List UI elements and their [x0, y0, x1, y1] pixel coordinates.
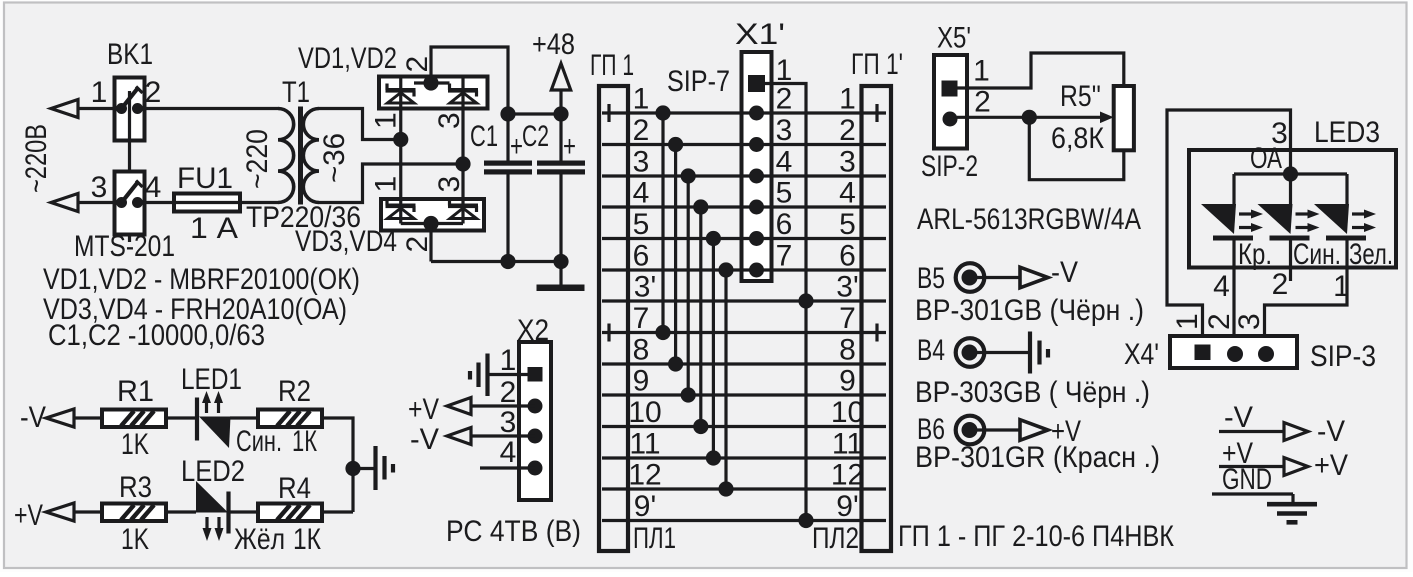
- svg-text:R3: R3: [119, 471, 152, 504]
- node junction row 12: [718, 481, 733, 496]
- svg-text:9': 9': [634, 490, 656, 523]
- connector X2 pin 1 square contact: [528, 367, 543, 382]
- wire R3 to LED2: [166, 510, 196, 513]
- wire link row 5 to row 11: [712, 239, 715, 459]
- LED3 blue chip anode riser: [1289, 174, 1292, 205]
- LED3 red chip cathode bar: [1213, 236, 1253, 241]
- connector X1' pin 7 contact: [749, 263, 764, 278]
- connector X1' pin 6 contact: [749, 231, 764, 246]
- connector X1' body: [742, 52, 772, 281]
- svg-text:1: 1: [370, 112, 403, 129]
- capacitor C1: [506, 114, 509, 161]
- connector X5' pin 1 square contact: [942, 81, 958, 97]
- svg-text:2: 2: [839, 114, 856, 147]
- connector X1' pin 2 contact: [749, 106, 764, 121]
- svg-text:+V: +V: [408, 393, 439, 426]
- diode VD1 symbol: [386, 88, 416, 93]
- svg-text:~220В: ~220В: [20, 124, 53, 193]
- svg-text:ПЛ1: ПЛ1: [633, 522, 676, 555]
- svg-text:8: 8: [633, 334, 650, 367]
- connector X5' pin 2 contact: [943, 112, 958, 127]
- wire +48 rail horizontal: [508, 112, 561, 115]
- resistor R1 hatch: [121, 411, 134, 426]
- svg-text:1 А: 1 А: [190, 212, 238, 245]
- wire X5' pin2 to wiper node: [957, 116, 1029, 119]
- LED3 red chip anode riser: [1232, 174, 1235, 205]
- svg-text:2: 2: [145, 76, 162, 109]
- LED2 diode triangle: [196, 481, 228, 513]
- svg-text:VD1,VD2: VD1,VD2: [298, 42, 397, 75]
- svg-text:-V: -V: [20, 401, 46, 434]
- wire through fuse FU1: [174, 201, 240, 204]
- wire harness row 3': [602, 299, 886, 302]
- svg-text:-V: -V: [1317, 415, 1345, 448]
- wire X2 pin2 to +V arrow: [471, 404, 535, 407]
- LED1 cathode bar: [195, 398, 199, 441]
- svg-text:4: 4: [145, 171, 162, 204]
- node +48 rail C1 junction: [500, 106, 515, 121]
- LED2 cathode bar: [226, 492, 230, 534]
- wire X5' pin1 to R5 top: [957, 53, 1124, 88]
- svg-text:SIP-7: SIP-7: [667, 65, 730, 98]
- svg-text:1К: 1К: [293, 523, 321, 556]
- svg-text:C1: C1: [470, 120, 498, 153]
- svg-text:ПЛ2: ПЛ2: [812, 522, 859, 555]
- svg-text:X5': X5': [937, 22, 971, 55]
- svg-text:4: 4: [633, 177, 650, 210]
- switch BK1 section 1 body: [115, 78, 145, 141]
- svg-text:4: 4: [839, 177, 856, 210]
- wire link row 3 to row 9: [687, 176, 690, 395]
- svg-text:BP-301GR (Красн .): BP-301GR (Красн .): [915, 441, 1160, 474]
- svg-text:~36: ~36: [318, 133, 351, 183]
- capacitor C2: [559, 90, 562, 161]
- wire AC2 vertical VD2 anode to VD4 cathode: [461, 109, 464, 200]
- wire R4 to common node: [322, 510, 353, 513]
- wire harness row 2: [602, 143, 886, 146]
- wire B4 to chassis: [977, 351, 1028, 354]
- svg-text:В5: В5: [917, 262, 945, 295]
- wire harness row 4: [602, 205, 886, 208]
- svg-text:11: 11: [629, 428, 660, 461]
- svg-text:LED2: LED2: [181, 455, 245, 488]
- svg-text:SIP-2: SIP-2: [921, 150, 978, 183]
- wire T1 secondary bottom lead to bridge node B: [319, 164, 463, 203]
- wire harness row 3: [602, 174, 886, 177]
- connector ГП1 body (ПЛ1): [599, 86, 628, 551]
- wire node to chassis symbol: [353, 467, 374, 470]
- +48 output arrow: [551, 64, 570, 91]
- wire AC1 vertical VD1 anode to VD3 cathode: [399, 109, 402, 200]
- svg-text:6: 6: [839, 240, 856, 273]
- svg-text:ARL-5613RGBW/4A: ARL-5613RGBW/4A: [917, 203, 1141, 236]
- LED3 green chip triangle: [1314, 204, 1349, 234]
- jack B6 symbol: [956, 416, 985, 445]
- svg-text:2: 2: [974, 86, 991, 119]
- svg-text:1K: 1K: [121, 428, 149, 461]
- input arrow top (~220V line 1): [51, 100, 78, 118]
- node junction row 8: [668, 356, 683, 371]
- svg-text:BP-303GB ( Чёрн .): BP-303GB ( Чёрн .): [915, 376, 1150, 409]
- svg-text:R4: R4: [278, 472, 311, 505]
- svg-text:11: 11: [832, 428, 863, 461]
- wire X2 pin1 to chassis: [489, 373, 528, 376]
- ground symbol: [1291, 494, 1294, 502]
- node pin1-row3' junction: [798, 293, 813, 308]
- wire B6 to +V arrow: [977, 428, 1020, 431]
- connector X4' pin 1 square contact: [1195, 345, 1211, 361]
- svg-text:R2: R2: [278, 375, 311, 408]
- wire LED3 blue cathode stub: [1289, 240, 1292, 281]
- svg-text:X1': X1': [735, 18, 785, 51]
- svg-text:Син.: Син.: [1293, 238, 1341, 271]
- svg-text:7: 7: [633, 302, 650, 335]
- svg-text:ГП 1: ГП 1: [590, 49, 634, 82]
- fuse FU1 body: [174, 194, 240, 212]
- chassis ground symbol at X2 pin1: [485, 354, 489, 397]
- contact tick row 1 right: [875, 104, 878, 122]
- svg-text:T1: T1: [282, 76, 310, 109]
- LED1 emission arrows up: [205, 400, 208, 413]
- wire harness row 1: [602, 111, 886, 114]
- LED3 red chip emission arrows: [1239, 212, 1253, 215]
- switch BK1 mechanical link: [128, 91, 131, 242]
- node junction row 10: [693, 419, 708, 434]
- svg-text:3: 3: [776, 114, 793, 147]
- wire harness row 12: [602, 487, 886, 490]
- contact tick row 7 right: [875, 324, 878, 342]
- wire harness row 7: [602, 331, 886, 334]
- jack B4 symbol: [956, 338, 985, 367]
- chassis ground symbol at LED node: [373, 446, 377, 490]
- svg-text:FU1: FU1: [177, 162, 233, 195]
- svg-text:10: 10: [628, 396, 661, 429]
- svg-text:R1: R1: [117, 375, 154, 408]
- LED1 diode triangle: [199, 417, 231, 449]
- svg-text:-V: -V: [410, 423, 439, 456]
- contact tick row 1 left: [607, 104, 610, 122]
- svg-text:4: 4: [500, 436, 517, 469]
- wire VD3,VD4 anode bus: [401, 222, 463, 225]
- wire X1' pin1 to rows 3' and 9': [765, 84, 806, 521]
- connector X4' pin 2 contact: [1227, 346, 1243, 362]
- svg-text:LED1: LED1: [181, 363, 242, 396]
- wire bridge pin2 to +48 rail: [431, 47, 508, 114]
- net -V arrow at B5: [1020, 267, 1048, 288]
- resistor R3 hatch: [121, 505, 134, 520]
- wire BK1.2 to fuse FU1: [145, 201, 174, 204]
- svg-text:3: 3: [500, 406, 517, 439]
- wire gnd rail horizontal: [431, 260, 561, 263]
- wire VD1,VD2 cathode bus: [414, 81, 450, 84]
- wire LED1 to R2: [230, 416, 258, 419]
- svg-text:1: 1: [633, 83, 650, 116]
- node VD1,VD2 pin 2 junction: [423, 75, 438, 90]
- node wiper junction: [1022, 110, 1037, 125]
- wire LED3 pin3 outer loop to X4' pin1: [1167, 110, 1291, 344]
- resistor R2 body: [258, 410, 322, 428]
- LED3 module body: [1189, 150, 1396, 268]
- switch BK1 lever section 1: [122, 89, 138, 109]
- svg-text:1: 1: [500, 344, 517, 377]
- resistor R4 hatch: [277, 505, 290, 520]
- wire harness row 9': [602, 519, 886, 522]
- svg-text:BP-301GB (Чёрн .): BP-301GB (Чёрн .): [915, 294, 1144, 327]
- svg-text:2: 2: [401, 56, 434, 73]
- svg-text:ГП 1 - ПГ 2-10-6 П4НВК: ГП 1 - ПГ 2-10-6 П4НВК: [898, 520, 1174, 553]
- svg-text:2: 2: [1203, 313, 1236, 330]
- svg-text:3: 3: [633, 146, 650, 179]
- wire X2 pin3 to -V arrow: [471, 434, 535, 437]
- svg-text:6: 6: [776, 208, 793, 241]
- svg-text:+V: +V: [14, 499, 43, 532]
- svg-text:1К: 1К: [292, 425, 317, 458]
- svg-text:7: 7: [776, 240, 793, 273]
- switch BK1 contact dots section 2: [116, 197, 127, 208]
- diode module VD3,VD4 body: [381, 199, 484, 231]
- node junction row 9: [681, 387, 696, 402]
- wire LED3 anode bus: [1234, 172, 1347, 175]
- wire +V to R3: [74, 510, 102, 513]
- switch BK1 lever section 2: [122, 183, 138, 203]
- wire BK1.1 to T1 primary top: [145, 107, 278, 110]
- connector X2 pin 3 contact: [528, 429, 543, 444]
- svg-text:+48: +48: [532, 28, 575, 61]
- svg-text:1: 1: [1333, 270, 1350, 303]
- node VD3,VD4 pin 2 junction: [423, 216, 438, 231]
- connector ГП1' body (ПЛ2): [862, 86, 892, 551]
- connector X1' pin 1 square contact: [748, 75, 765, 92]
- svg-text:2: 2: [633, 114, 650, 147]
- wire link row 4 to row 10: [699, 207, 702, 427]
- potentiometer R5'' body: [1114, 86, 1134, 150]
- svg-text:7: 7: [839, 302, 856, 335]
- node junction row 4: [693, 199, 708, 214]
- svg-text:1: 1: [1171, 313, 1204, 330]
- svg-text:BK1: BK1: [107, 38, 153, 71]
- svg-text:VD3,VD4: VD3,VD4: [295, 225, 397, 258]
- svg-text:~220: ~220: [241, 129, 274, 189]
- legend GND line: [1212, 492, 1293, 495]
- wire LED3 red cathode to X4' pin2: [1232, 240, 1235, 346]
- wire VD3 lead vertical: [399, 199, 402, 224]
- svg-text:С2: С2: [522, 120, 549, 153]
- LED3 green chip anode riser: [1345, 174, 1348, 205]
- wire harness row 11: [602, 456, 886, 459]
- wire input top to switch BK1.1: [78, 107, 114, 110]
- jack B5 symbol: [956, 263, 985, 292]
- svg-text:SIP-3: SIP-3: [1310, 340, 1376, 373]
- svg-text:R5'': R5'': [1060, 80, 1101, 113]
- potentiometer R5'' wiper arrow: [1029, 116, 1100, 119]
- svg-text:+: +: [510, 130, 523, 163]
- svg-text:GND: GND: [1222, 463, 1272, 496]
- wire bridge pin2 bottom to gnd rail: [429, 224, 432, 262]
- wire VD2 cathode lead vertical: [461, 77, 464, 109]
- wire LED3 green cathode to X4' pin3: [1265, 240, 1348, 346]
- diode module VD1,VD2 body: [379, 77, 488, 109]
- svg-text:12: 12: [831, 459, 864, 492]
- svg-text:X4': X4': [1124, 338, 1159, 371]
- LED3 green chip emission arrows: [1352, 212, 1366, 215]
- LED3 red chip triangle: [1201, 204, 1236, 234]
- contact tick row 7 left: [607, 324, 610, 342]
- wire harness row 10: [602, 425, 886, 428]
- svg-text:В4: В4: [917, 334, 945, 367]
- svg-text:3': 3': [836, 271, 858, 304]
- resistor R1 body: [102, 410, 166, 428]
- svg-text:4: 4: [1213, 270, 1230, 303]
- node junction row 6: [718, 262, 733, 277]
- svg-text:2: 2: [776, 83, 793, 116]
- svg-text:Зел.: Зел.: [1349, 238, 1393, 271]
- LED3 blue chip cathode bar: [1270, 236, 1310, 241]
- LED2 emission arrows down: [205, 517, 208, 530]
- wire -V to R1: [74, 416, 102, 419]
- svg-text:C1,C2 -10000,0/63: C1,C2 -10000,0/63: [48, 319, 265, 352]
- node gnd rail C2 junction: [553, 254, 568, 269]
- node junction row 11: [706, 450, 721, 465]
- svg-text:3: 3: [433, 176, 466, 193]
- svg-text:3': 3': [634, 271, 656, 304]
- svg-text:LED3: LED3: [1314, 116, 1380, 149]
- wire R1 to LED1: [166, 416, 197, 419]
- node pin1-row9' junction: [798, 513, 813, 528]
- svg-text:10: 10: [831, 396, 864, 429]
- wire harness row 9: [602, 393, 886, 396]
- wire FU1 to T1 primary bottom: [240, 201, 278, 204]
- svg-text:Син.: Син.: [236, 425, 282, 458]
- svg-text:-V: -V: [1224, 401, 1253, 434]
- diode VD2 symbol: [448, 88, 478, 93]
- svg-text:ГП 1': ГП 1': [851, 48, 903, 81]
- svg-text:1: 1: [91, 76, 108, 109]
- connector X2 pin 4 contact: [528, 461, 543, 476]
- connector X1' pin 4 contact: [749, 169, 764, 184]
- svg-text:РС 4ТВ (В): РС 4ТВ (В): [446, 515, 581, 548]
- node +48 rail C2 junction: [553, 106, 568, 121]
- wire link row 6 to row 12: [724, 270, 727, 489]
- connector X4' pin 3 contact: [1258, 346, 1274, 362]
- svg-text:Кр.: Кр.: [1238, 238, 1272, 271]
- svg-text:5: 5: [839, 208, 856, 241]
- svg-text:3: 3: [839, 146, 856, 179]
- node junction row 7: [655, 325, 670, 340]
- svg-text:ОА: ОА: [1250, 142, 1282, 175]
- wire LED2 to R4: [229, 510, 259, 513]
- svg-text:9': 9': [836, 490, 858, 523]
- transformer T1 primary winding ~220: [278, 109, 294, 203]
- ground plate under C2: [537, 285, 585, 292]
- svg-text:9: 9: [839, 365, 856, 398]
- svg-text:1K: 1K: [121, 523, 149, 556]
- diode VD3 symbol: [386, 204, 416, 209]
- node junction row 3: [681, 168, 696, 183]
- legend +V line and arrow: [1219, 465, 1284, 468]
- connector X1' pin 3 contact: [749, 137, 764, 152]
- wire link row 2 to row 8: [674, 145, 677, 365]
- wire X2 pin4 stub: [480, 466, 535, 469]
- wire R5 bottom loop: [1029, 117, 1124, 179]
- svg-text:2: 2: [401, 236, 434, 253]
- svg-text:12: 12: [628, 459, 661, 492]
- svg-text:5: 5: [776, 177, 793, 210]
- svg-text:MTS-201: MTS-201: [74, 230, 175, 263]
- svg-text:2: 2: [1272, 268, 1289, 301]
- wire harness row 8: [602, 362, 886, 365]
- LED3 green chip cathode bar: [1326, 236, 1366, 241]
- svg-text:4: 4: [776, 146, 793, 179]
- node junction row 2: [668, 137, 683, 152]
- svg-text:8: 8: [839, 334, 856, 367]
- wire R2 to common node: [322, 418, 353, 512]
- svg-text:9: 9: [633, 365, 650, 398]
- svg-text:VD1,VD2 - MBRF20100(ОК): VD1,VD2 - MBRF20100(ОК): [43, 263, 360, 296]
- svg-text:5: 5: [633, 208, 650, 241]
- wire VD1 cathode lead vertical: [399, 77, 402, 109]
- svg-text:Жёл: Жёл: [234, 523, 285, 556]
- node AC2 junction dot: [455, 156, 470, 171]
- connector X4' body: [1170, 336, 1297, 368]
- wire B5 to -V arrow: [977, 276, 1020, 279]
- svg-text:1: 1: [839, 83, 856, 116]
- LED3 blue chip emission arrows: [1296, 212, 1310, 215]
- input arrow bottom (~220V line 2): [51, 194, 78, 212]
- svg-text:3: 3: [91, 171, 108, 204]
- wire link row 1 to row 7: [661, 113, 664, 333]
- transformer T1 core: [298, 107, 303, 205]
- chassis ground symbol at B4: [1028, 332, 1032, 374]
- diode VD4 symbol: [448, 204, 478, 209]
- wire input bottom to switch BK1.2: [78, 201, 114, 204]
- svg-text:3: 3: [433, 112, 466, 129]
- svg-text:6: 6: [633, 240, 650, 273]
- switch BK1 contact dots section 1: [116, 103, 127, 114]
- node LED rows common junction: [345, 461, 360, 476]
- resistor R2 hatch: [277, 411, 290, 426]
- connector X2 pin 2 contact: [528, 399, 543, 414]
- resistor R3 body: [102, 504, 166, 522]
- net +V arrow at B6: [1020, 420, 1048, 441]
- resistor R4 body: [258, 504, 322, 522]
- wire T1 secondary top lead to bridge node A: [319, 109, 401, 140]
- svg-text:3: 3: [1233, 313, 1266, 330]
- transformer T1 secondary winding ~36: [303, 109, 319, 203]
- legend -V line and arrow: [1219, 430, 1284, 433]
- switch BK1 section 2 body: [115, 172, 145, 235]
- wire harness row 5: [602, 237, 886, 240]
- wire harness row 6: [602, 268, 886, 271]
- svg-text:1: 1: [973, 55, 990, 88]
- wire VD4 lead vertical: [461, 199, 464, 224]
- connector X5' body: [934, 55, 967, 149]
- node LED3 common anode junction: [1283, 166, 1298, 181]
- connector X1' pin 5 contact: [749, 200, 764, 215]
- node junction row 5: [706, 231, 721, 246]
- node junction row 1: [655, 105, 670, 120]
- svg-text:+V: +V: [1314, 449, 1348, 482]
- svg-text:6,8К: 6,8К: [1051, 122, 1104, 155]
- svg-text:1: 1: [370, 176, 403, 193]
- bridge AC node A junction dot: [393, 132, 408, 147]
- LED3 blue chip triangle: [1258, 204, 1293, 234]
- svg-text:2: 2: [500, 376, 517, 409]
- svg-text:+: +: [563, 130, 576, 163]
- node gnd rail C1 junction: [500, 254, 515, 269]
- connector X2 body: [519, 342, 551, 500]
- svg-text:-V: -V: [1051, 256, 1078, 289]
